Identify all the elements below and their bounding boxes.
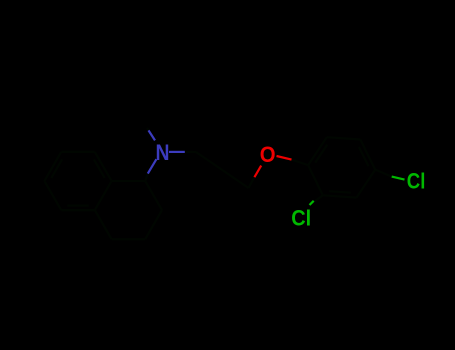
- bond Cl4-ring green half: [392, 177, 405, 180]
- svg-text:Cl: Cl: [407, 169, 426, 194]
- bond CH2-CH2 a: [196, 152, 222, 170]
- right benzene double bond C2'-C3': [329, 191, 351, 193]
- svg-text:N: N: [156, 140, 170, 165]
- right benzene bond C1'-C2': [308, 165, 323, 195]
- bond CH2-CH2 b: [222, 170, 248, 188]
- bond O-CH2 red half: [254, 166, 261, 178]
- tetralin C4a-C8a' bond: [95, 210, 112, 239]
- bond N-CH2(chain) blue half: [169, 151, 185, 153]
- right benzene double bond C6'-C1': [315, 145, 327, 163]
- tetralin C1-C2 bond: [112, 180, 146, 182]
- right benzene bond C4'-C5': [360, 140, 375, 170]
- bond N-methyl blue half: [149, 130, 156, 140]
- right benzene bond C2'-C3': [323, 195, 357, 197]
- tetralin benzene double bond BR-BL: [67, 205, 89, 207]
- bond O-aryl red half: [277, 156, 292, 160]
- tetralin C2-C3 bond: [145, 181, 162, 210]
- tetralin benzene bond TL-TR: [61, 151, 95, 153]
- right benzene bond C5'-C6': [327, 137, 361, 139]
- right benzene bond C6'-C1': [308, 137, 327, 165]
- svg-text:O: O: [260, 142, 276, 167]
- bond N-CH2 dark half: [185, 151, 196, 153]
- tetralin benzene bond R-BR: [95, 181, 112, 210]
- tetralin benzene bond BL-L: [44, 181, 61, 210]
- bond N-tetralinC2 blue half: [148, 159, 157, 173]
- tetralin C4-C4a bond: [112, 238, 146, 240]
- tetralin benzene bond L-TL: [44, 152, 61, 181]
- bond Cl2-ring green half: [310, 201, 314, 205]
- bond C2'-Cl dark half: [310, 195, 323, 205]
- bond N-methyl dark half: [147, 128, 155, 140]
- bond O-aryl dark half: [292, 160, 309, 166]
- right benzene bond C3'-C4': [357, 170, 376, 198]
- bond CH2-O dark half: [249, 177, 255, 188]
- right benzene double bond C4'-C5': [359, 147, 369, 166]
- tetralin benzene bond TR-R: [95, 152, 112, 181]
- tetralin C3-C4 bond: [145, 210, 162, 239]
- bond N-C2tetralin dark half: [145, 174, 148, 181]
- svg-text:Cl: Cl: [291, 205, 311, 230]
- tetralin benzene bond BR-BL: [61, 209, 95, 211]
- tetralin benzene double bond TR-R: [94, 159, 105, 178]
- tetralin benzene double bond L-TL: [51, 159, 62, 178]
- bond C4'-Cl dark half: [375, 170, 392, 177]
